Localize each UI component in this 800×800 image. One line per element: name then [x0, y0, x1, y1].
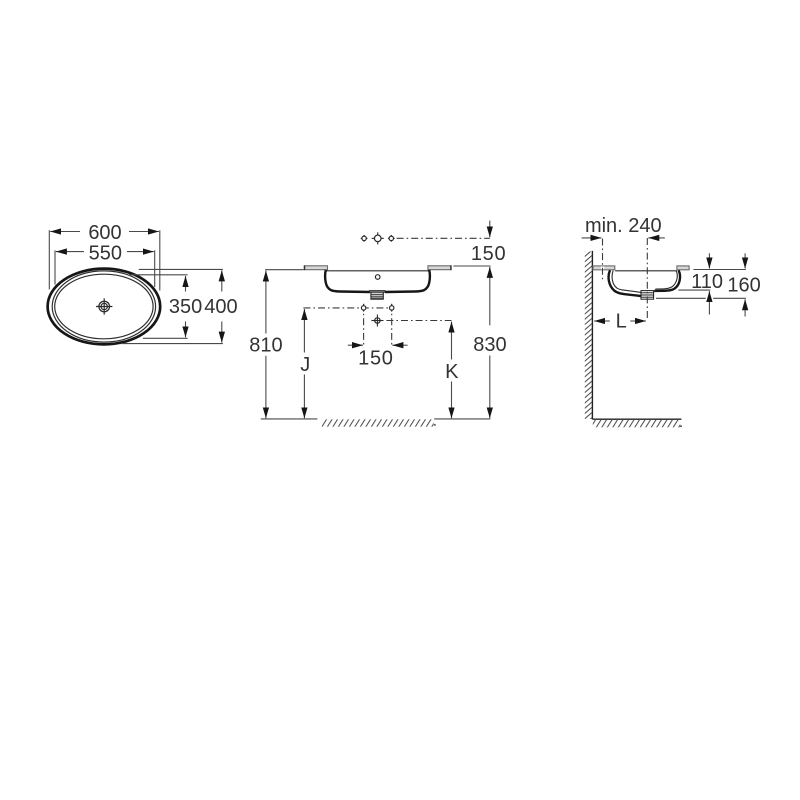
svg-text:160: 160 — [727, 275, 760, 297]
svg-text:400: 400 — [204, 296, 237, 318]
svg-text:350: 350 — [169, 296, 202, 318]
svg-text:150: 150 — [358, 348, 393, 370]
svg-text:L: L — [616, 311, 627, 333]
svg-text:J: J — [300, 354, 310, 376]
svg-text:600: 600 — [88, 222, 121, 244]
svg-text:810: 810 — [249, 335, 282, 357]
svg-text:min. 240: min. 240 — [585, 215, 662, 237]
svg-text:K: K — [445, 361, 459, 383]
svg-text:150: 150 — [471, 243, 506, 265]
svg-text:550: 550 — [89, 242, 122, 264]
svg-text:110: 110 — [691, 271, 723, 293]
svg-text:830: 830 — [473, 334, 506, 356]
